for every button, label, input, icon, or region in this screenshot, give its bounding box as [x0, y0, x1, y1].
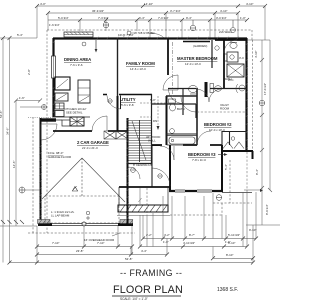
patio thin outline bottom right [213, 160, 252, 203]
closet door arc hall [128, 167, 140, 179]
svg-text:4'-0": 4'-0" [40, 2, 46, 6]
hall bath door arc [181, 97, 196, 112]
svg-text:9'-4": 9'-4" [186, 16, 192, 20]
svg-text:UTILITY: UTILITY [120, 97, 136, 102]
window tag circle top 3 [231, 20, 236, 33]
wall right exterior [245, 38, 247, 152]
dim text row B [92, 9, 227, 13]
room label master [177, 56, 218, 66]
svg-text:-- FRAMING --: -- FRAMING -- [120, 268, 182, 278]
svg-text:FLOOR PLAN: FLOOR PLAN [113, 284, 183, 296]
hall door arc lower [152, 168, 170, 186]
room label family [126, 61, 155, 71]
leader curve top master [148, 33, 164, 38]
keynote triangle garage [72, 187, 77, 192]
svg-text:5'-0": 5'-0" [150, 98, 156, 102]
svg-text:8'-4": 8'-4" [255, 169, 259, 175]
svg-text:2 CAR GARAGE: 2 CAR GARAGE [77, 140, 109, 145]
bottom dim rows left section [35, 224, 134, 263]
svg-text:4'-4": 4'-4" [141, 249, 147, 253]
right edge y225 line [246, 224, 280, 226]
svg-text:34'-6": 34'-6" [6, 128, 10, 135]
garage beam note [51, 210, 75, 218]
svg-text:3'-0: 3'-0 [239, 56, 244, 60]
svg-text:1'-0": 1'-0" [240, 16, 246, 20]
svg-text:21'-0 x 21'-0: 21'-0 x 21'-0 [82, 146, 98, 150]
stair label [153, 119, 157, 123]
window sill master [183, 41, 210, 43]
kitchen counter bottom [53, 117, 90, 126]
kitchen range cabinet [55, 93, 68, 101]
bed2 ceiling dashed [197, 111, 247, 113]
master suite closet walls [152, 88, 247, 118]
ceiling ht note [133, 163, 152, 167]
master wic door arc [169, 89, 184, 104]
wall garage bottom with door opening [38, 220, 134, 227]
title framing [112, 268, 238, 300]
master bath top right walls [223, 40, 225, 88]
bottom dim row mid [138, 192, 249, 249]
bottom dim row widest [8, 225, 256, 265]
bottom dim row 23-8 [35, 239, 169, 257]
svg-text:5'-0 3/4": 5'-0 3/4" [58, 16, 69, 20]
entry door arc [41, 124, 57, 140]
bedroom3 left wall [169, 145, 171, 192]
interior wall kitchen/utility [117, 96, 119, 131]
bottom dim row right upper [141, 192, 258, 247]
electrical symbol left of entry [19, 105, 77, 194]
master shower with X [227, 64, 244, 77]
window tag circle top 1 [103, 22, 109, 28]
svg-text:FAMILY ROOM: FAMILY ROOM [126, 61, 155, 66]
hall texts [146, 98, 160, 143]
svg-text:1368 S.F.: 1368 S.F. [217, 287, 238, 293]
stair treads [128, 120, 151, 162]
svg-text:LL LAP BEAM: LL LAP BEAM [51, 214, 70, 218]
left dim rotated text [0, 33, 31, 168]
bedroom3 bottom wall with windows [169, 190, 223, 192]
svg-text:52'-8": 52'-8" [125, 257, 132, 261]
svg-text:23'-8": 23'-8" [76, 249, 83, 253]
right dim rotated text [254, 51, 269, 215]
svg-text:4'-2": 4'-2" [164, 233, 170, 237]
svg-text:BATH: BATH [224, 77, 232, 81]
svg-text:54'-6": 54'-6" [0, 111, 3, 118]
garage entry door arc [92, 116, 107, 131]
svg-text:DN: DN [153, 119, 157, 123]
kitchen small cabinets [55, 103, 64, 117]
svg-text:5'-6 x 9'-8: 5'-6 x 9'-8 [121, 103, 134, 107]
master bedroom left wall + door [163, 38, 178, 100]
svg-text:4'-10": 4'-10" [220, 9, 227, 13]
kitchen label [64, 107, 87, 114]
top dimension line row C [48, 18, 249, 40]
kitchen fridge [55, 77, 70, 90]
svg-text:1'-6": 1'-6" [19, 96, 25, 100]
wall y145 bed2/bed3 [152, 144, 222, 146]
bed2 closet bifold doors [223, 142, 244, 149]
hall bath toilet [169, 99, 176, 111]
kitchen island [78, 80, 90, 103]
svg-text:16' OVERHEAD DOOR: 16' OVERHEAD DOOR [84, 238, 114, 242]
dashed roofline bottom middle [147, 188, 222, 215]
garage header dashed rect [45, 196, 119, 223]
step marker family/dining [95, 40, 98, 53]
ffe label [48, 151, 71, 159]
garage roof ridge lines [42, 158, 125, 202]
wall right jog bottom [222, 151, 253, 192]
utility door arc [107, 96, 121, 110]
hall wall under stairs [127, 163, 152, 165]
window tag circle top 2 [190, 20, 196, 31]
svg-text:17'-0 3/4": 17'-0 3/4" [263, 83, 267, 95]
porch wall hatched [118, 187, 170, 212]
bedroom3 right wall [221, 145, 223, 192]
svg-text:8'-0 3/4": 8'-0 3/4" [265, 204, 269, 215]
svg-text:36'-9 3/4": 36'-9 3/4" [92, 9, 104, 13]
svg-text:7'-3 3/4": 7'-3 3/4" [98, 16, 109, 20]
washer dryer platform [104, 131, 128, 139]
svg-text:1'-0": 1'-0" [163, 240, 169, 244]
utility right wall [151, 94, 153, 120]
svg-text:SEE DETAIL: SEE DETAIL [66, 110, 83, 114]
wall bath right top [215, 39, 247, 41]
svg-text:BEDROOM #2: BEDROOM #2 [204, 122, 232, 127]
bath2 fixtures [189, 84, 246, 103]
svg-text:7'-6 x 9'-6: 7'-6 x 9'-6 [70, 63, 83, 67]
room label bedroom3 [188, 152, 216, 162]
top dimension line row A [35, 4, 267, 40]
svg-text:4'-10 3/4": 4'-10 3/4" [183, 241, 195, 245]
svg-text:7'-0 3/4": 7'-0 3/4" [158, 16, 169, 20]
svg-text:2'-0": 2'-0" [27, 69, 31, 75]
kitchen bottom wall [53, 130, 127, 132]
svg-text:2x6 WALL: 2x6 WALL [219, 30, 233, 34]
dining ceiling fixture [82, 42, 86, 46]
svg-text:BEDROOM #3: BEDROOM #3 [188, 152, 216, 157]
room label utility [120, 97, 136, 107]
hall closet walls [152, 146, 160, 188]
window left dining [52, 56, 56, 78]
svg-text:1'-6 3/4": 1'-6 3/4" [49, 23, 60, 27]
wall top exterior [53, 37, 247, 39]
window top dining [64, 32, 93, 37]
svg-text:14'-6": 14'-6" [12, 161, 16, 168]
svg-text:8' CEILING HT: 8' CEILING HT [133, 163, 152, 167]
svg-text:1R @ 7 3/4": 1R @ 7 3/4" [118, 33, 134, 37]
svg-text:ROOM: ROOM [220, 107, 230, 111]
svg-text:3'-7 3/4": 3'-7 3/4" [170, 9, 181, 13]
bottom right 8-10 row [211, 247, 255, 261]
svg-text:5'-10 3/4": 5'-10 3/4" [228, 233, 240, 237]
svg-text:12'-0 x 13'-0: 12'-0 x 13'-0 [185, 62, 201, 66]
right dimension lines [244, 40, 272, 225]
stair up-flight dashed [157, 96, 159, 126]
stair side wall [151, 120, 153, 163]
room label garage [77, 140, 109, 150]
svg-text:8'-10": 8'-10" [226, 253, 233, 257]
small annotations top [118, 30, 233, 48]
hall bath sink [170, 129, 175, 134]
room label dining [64, 57, 91, 67]
svg-text:14'-10": 14'-10" [144, 2, 153, 6]
svg-text:MASTER BEDROOM: MASTER BEDROOM [177, 56, 218, 61]
interior wall dining/family [117, 38, 119, 96]
svg-text:(GARDEN): (GARDEN) [193, 44, 207, 48]
garage door opener symbol [86, 211, 90, 220]
hall bath walls [166, 96, 168, 145]
top dimension line row B [46, 11, 240, 40]
svg-text:GARAGE FLOOR: GARAGE FLOOR [48, 155, 71, 159]
wall garage left [40, 118, 42, 225]
bed2 closet walls [222, 131, 247, 145]
master bath toilet [230, 43, 237, 49]
bed2 door arc [197, 131, 211, 145]
hall bath label [177, 107, 185, 111]
svg-text:10'-0 x 10'-0: 10'-0 x 10'-0 [209, 128, 225, 132]
roof overhang dashed outline [28, 30, 253, 233]
garage right wall [127, 118, 129, 224]
dim text row A [40, 2, 253, 6]
utility top wall [103, 94, 152, 96]
svg-text:7'-10": 7'-10" [52, 241, 59, 245]
svg-text:8'-7": 8'-7" [189, 233, 195, 237]
svg-text:6'-10": 6'-10" [228, 241, 235, 245]
wall entry jog [40, 118, 56, 121]
garage door note [84, 238, 114, 242]
svg-text:5'-4": 5'-4" [224, 164, 228, 170]
svg-text:W: 5/8 GYP. BD.: W: 5/8 GYP. BD. [134, 31, 155, 35]
svg-text:14'-6 x 13'-0: 14'-6 x 13'-0 [130, 67, 146, 71]
svg-text:5'-4": 5'-4" [17, 33, 23, 37]
master bath door arc [224, 40, 237, 53]
bath label [224, 77, 232, 81]
svg-text:6'-4": 6'-4" [139, 16, 145, 20]
svg-text:7'-8 x 11'-0: 7'-8 x 11'-0 [192, 158, 206, 162]
master bath vanity [224, 52, 239, 62]
svg-text:WALL: WALL [148, 139, 156, 143]
room label bedroom2 [204, 122, 232, 132]
svg-text:9'-10": 9'-10" [249, 228, 256, 232]
right window tag circle [259, 100, 265, 106]
dim text row C [49, 16, 246, 27]
svg-text:3'-0 3/4": 3'-0 3/4" [216, 16, 227, 20]
wall left exterior [52, 38, 54, 117]
svg-text:4'-10": 4'-10" [254, 51, 258, 58]
bed3 window tag [216, 195, 222, 201]
hall bathtub [167, 136, 197, 146]
bed3 door arc [160, 146, 174, 160]
svg-text:DINING AREA: DINING AREA [64, 57, 91, 62]
svg-text:4'-10": 4'-10" [246, 2, 253, 6]
left dimension lines [0, 36, 42, 263]
